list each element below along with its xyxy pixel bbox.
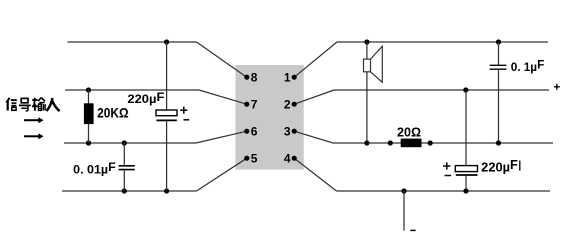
- svg-text:5: 5: [251, 151, 258, 165]
- signal input arrow 2: [24, 135, 40, 137]
- node: junction dot bottom wire / negative terminal: [401, 188, 406, 193]
- node: junction dot top wire / C1 lead: [164, 39, 169, 44]
- pin 4 dot: [292, 156, 297, 161]
- node: junction dot row3 / C2 top: [122, 140, 127, 145]
- capacitor C4 minus sign: [445, 175, 452, 177]
- capacitor C3 lead bottom: [498, 69, 500, 143]
- wire diagonal to pin 6: [196, 131, 247, 143]
- pin 3 dot: [292, 129, 297, 134]
- wire row3-right horizontal: [333, 142, 553, 144]
- node: junction dot speaker bottom: [364, 140, 369, 145]
- resistor R1 20KΩ body: [84, 103, 94, 124]
- pin 5 dot: [244, 156, 249, 161]
- svg-text:2: 2: [284, 97, 291, 111]
- capacitor C4 plate top (hollow): [455, 166, 477, 172]
- pin 7 dot: [244, 102, 249, 107]
- pin 1 dot: [292, 75, 297, 80]
- wire diagonal to pin 7: [199, 90, 247, 104]
- wire row3-left horizontal: [64, 142, 196, 144]
- wire diagonal to pin 5: [197, 158, 247, 191]
- wire bottom-right horizontal: [337, 190, 551, 192]
- pin 2 dot: [292, 102, 297, 107]
- capacitor C2 lead bottom: [123, 170, 125, 191]
- wire row2-right horizontal: [334, 89, 549, 91]
- char 信: [6, 98, 9, 103]
- wire top-right horizontal: [337, 41, 548, 43]
- node: junction dot C4 bottom on bottom wire: [463, 188, 468, 193]
- svg-text:20Ω: 20Ω: [397, 125, 421, 140]
- capacitor C3 plate top: [490, 64, 507, 66]
- capacitor C2 plate top: [119, 165, 135, 167]
- capacitor C4 plus sign: [443, 165, 450, 167]
- capacitor C2 0.01µF lead top: [123, 143, 125, 166]
- svg-text:6: 6: [251, 124, 258, 138]
- capacitor C4 220µF lead top: [465, 90, 467, 166]
- negative terminal minus label: [410, 229, 415, 231]
- stray vertical bar after C4 label: [519, 161, 521, 171]
- wire diagonal from pin 3: [294, 131, 333, 143]
- svg-text:220µF: 220µF: [127, 90, 164, 106]
- wire diagonal from pin 4: [294, 158, 336, 191]
- node: junction dot bottom / C1 bottom: [164, 188, 169, 193]
- capacitor C2 plate bottom: [119, 169, 135, 171]
- svg-text:20KΩ: 20KΩ: [97, 105, 129, 121]
- wire diagonal to pin 8: [197, 42, 247, 77]
- svg-text:0. 1µF: 0. 1µF: [511, 58, 545, 74]
- capacitor C3 plate bottom: [490, 68, 507, 70]
- resistor R2 right lead dot: [428, 140, 433, 145]
- capacitor C1 minus sign: [184, 119, 190, 121]
- capacitor C4 plate bottom: [456, 174, 478, 176]
- pin 6 dot: [244, 129, 249, 134]
- char 号: [21, 98, 28, 102]
- node: junction dot row3 / R1 bottom: [86, 140, 91, 145]
- svg-text:0. 01µF: 0. 01µF: [73, 160, 116, 176]
- svg-text:1: 1: [284, 70, 291, 84]
- negative terminal lead down: [403, 191, 405, 231]
- wire row2-left horizontal: [65, 89, 199, 91]
- plus terminal label (V+) on row2 wire: [554, 86, 560, 88]
- svg-text:8: 8: [251, 70, 258, 84]
- node: junction dot top wire / C3: [496, 39, 501, 44]
- node: junction dot C3 bottom on row3 wire: [496, 140, 501, 145]
- char 输: [32, 99, 37, 101]
- signal input label 信号输入 (drawn strokes): [6, 98, 59, 111]
- svg-text:220µF: 220µF: [481, 158, 518, 174]
- resistor R1 lead bottom: [88, 124, 90, 143]
- speaker LS1 horn: [371, 46, 383, 82]
- wire diagonal from pin 2: [294, 90, 334, 104]
- capacitor C1 plate bottom: [156, 119, 176, 121]
- char 入: [47, 98, 53, 111]
- resistor R2 20Ω body: [401, 139, 422, 148]
- node: junction dot row2 / C4 top: [463, 87, 468, 92]
- IC U1 body: [236, 65, 304, 170]
- svg-text:4: 4: [284, 151, 291, 165]
- pin 8 dot: [244, 75, 249, 80]
- capacitor C1 lead bottom: [166, 121, 168, 191]
- resistor R1 20KΩ vertical lead top: [88, 90, 90, 104]
- capacitor C1 220µF lead top: [166, 42, 168, 110]
- node: junction dot bottom / C2 bottom: [122, 188, 127, 193]
- capacitor C3 0.1µF lead top: [498, 42, 500, 65]
- svg-text:3: 3: [284, 124, 291, 138]
- capacitor C1 plate top (hollow): [156, 110, 177, 116]
- wire diagonal from pin 1: [294, 42, 337, 77]
- capacitor C4 lead bottom: [465, 176, 467, 192]
- signal input arrow 1: [24, 119, 40, 121]
- wire top-left horizontal: [68, 41, 197, 43]
- capacitor C1 plus sign: [180, 109, 187, 111]
- node: junction dot top wire / speaker: [364, 39, 369, 44]
- speaker LS1 lead vertical: [366, 42, 368, 143]
- node: junction dot row2 / R1 top: [86, 87, 91, 92]
- svg-text:7: 7: [251, 97, 258, 111]
- resistor R2 20Ω left lead dot: [388, 140, 393, 145]
- wire bottom-left horizontal: [62, 190, 197, 192]
- speaker LS1 driver rect: [364, 59, 371, 72]
